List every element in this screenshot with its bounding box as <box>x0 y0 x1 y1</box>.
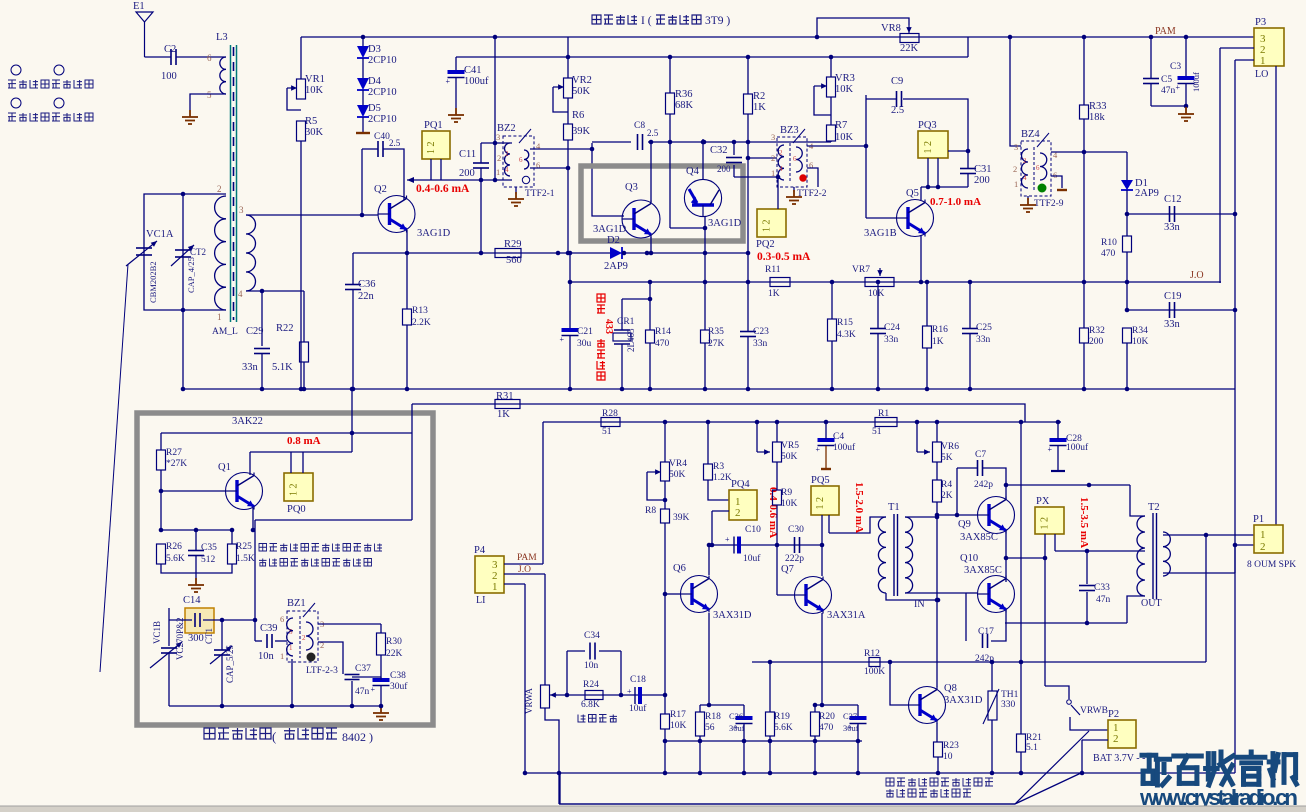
svg-text:1K: 1K <box>497 409 510 420</box>
wire <box>936 422 938 442</box>
junction <box>565 693 570 698</box>
wire Q9 emitter / Q10 collector <box>1005 530 1007 582</box>
junction <box>360 213 365 218</box>
wire C8 right to VR3 column <box>648 141 831 143</box>
capacitor C31 <box>960 169 976 174</box>
wire <box>566 651 568 695</box>
wire PQ4 pin1 <box>708 480 729 500</box>
svg-text:C2: C2 <box>164 44 176 55</box>
variable capacitor VC1B <box>161 648 177 653</box>
wire VR1 wiper loop <box>287 88 301 110</box>
wire volume feed <box>544 574 546 685</box>
wire <box>948 150 968 152</box>
resistor R3 <box>704 464 713 480</box>
wire <box>406 325 408 389</box>
svg-text:C40: C40 <box>374 132 390 142</box>
svg-text:100uf: 100uf <box>1066 442 1089 453</box>
wire <box>831 341 833 389</box>
junction <box>253 618 258 623</box>
junction <box>1043 556 1048 561</box>
wire <box>704 343 706 389</box>
wire VR6 wiper feed <box>916 422 918 452</box>
wire battery minus rail <box>525 772 1235 774</box>
wire PQ3 pin2 <box>937 158 939 187</box>
watermark CJK kuang shi shou yin ji <box>1142 752 1296 785</box>
capacitor C35 <box>188 551 204 556</box>
svg-text:22K: 22K <box>386 649 403 659</box>
svg-text:R29: R29 <box>504 239 522 250</box>
svg-text:2: 2 <box>217 184 222 194</box>
svg-text:R4: R4 <box>941 480 952 490</box>
junction <box>668 55 673 60</box>
wire B- vertical <box>1234 60 1236 573</box>
wire T2 secondary top to P1 <box>1163 534 1254 536</box>
wire R33 feed <box>1083 37 1085 105</box>
arrow VR3 wiper <box>814 83 827 88</box>
junction <box>181 387 186 392</box>
wire <box>567 98 569 124</box>
junction <box>830 280 835 285</box>
wire Q2 emitter <box>406 230 408 253</box>
junction <box>220 704 225 709</box>
junction <box>645 251 650 256</box>
wire C33 <box>1086 551 1088 584</box>
junction <box>1082 387 1087 392</box>
svg-text:5.1K: 5.1K <box>272 362 293 373</box>
wire speaker return <box>1205 535 1207 662</box>
wire <box>926 282 928 326</box>
resistor R20 <box>811 712 820 736</box>
svg-text:8 OUM SPK: 8 OUM SPK <box>1247 560 1296 570</box>
svg-text:C26: C26 <box>729 711 743 721</box>
svg-text:10K: 10K <box>1132 337 1149 347</box>
junction <box>824 420 829 425</box>
svg-text:2: 2 <box>1113 733 1119 745</box>
resistor R4 <box>933 480 942 502</box>
svg-text:R24: R24 <box>583 680 599 690</box>
svg-text:OUT: OUT <box>1141 598 1162 609</box>
wire <box>776 462 778 490</box>
junction <box>568 280 573 285</box>
capacitor C30 <box>795 537 800 553</box>
svg-text:+: + <box>446 77 451 86</box>
junction <box>566 251 571 256</box>
junction <box>768 739 773 744</box>
gray box local oscillator <box>137 413 433 725</box>
svg-text:C36: C36 <box>358 279 376 290</box>
capacitor C14 <box>195 613 200 627</box>
junction <box>479 178 484 183</box>
svg-text:C37: C37 <box>355 664 371 674</box>
wire <box>649 282 651 330</box>
junction <box>775 543 780 548</box>
wire Q8 base <box>890 662 909 705</box>
wire C2 to L3 <box>176 56 226 58</box>
svg-text:51: 51 <box>872 427 882 437</box>
wire BZ1 pin2 to C37 <box>318 642 343 674</box>
resistor R24 <box>585 691 603 700</box>
wire osc supply feed <box>351 389 353 452</box>
junction <box>856 739 861 744</box>
junction <box>1149 35 1154 40</box>
coil BZ2 primary <box>505 143 511 176</box>
connector P3 <box>1254 28 1284 67</box>
svg-text:18k: 18k <box>1089 112 1106 123</box>
transformer T1 primary <box>878 517 886 593</box>
capacitor C34 <box>590 643 595 660</box>
wire Q3 base <box>592 143 624 216</box>
wire PQ5 pin2 out <box>828 515 830 533</box>
wire PX pin1 down <box>1044 534 1046 686</box>
junction <box>299 387 304 392</box>
junction <box>568 251 573 256</box>
svg-text:TTF2-2: TTF2-2 <box>797 189 827 199</box>
junction <box>1085 549 1090 554</box>
mounting hole 1 <box>11 65 21 75</box>
junction <box>815 35 820 40</box>
junction <box>663 420 668 425</box>
svg-text:0.8 mA: 0.8 mA <box>287 435 321 447</box>
junction <box>746 55 751 60</box>
trimmer CT1 <box>214 650 230 655</box>
wire C17 left <box>965 593 967 641</box>
svg-text:R25: R25 <box>236 542 252 552</box>
svg-text:39K: 39K <box>572 126 591 137</box>
svg-text:5K: 5K <box>941 453 953 463</box>
wire P3 pin1 <box>1235 59 1254 61</box>
junction <box>919 280 924 285</box>
wire L3 pin4 bus <box>246 290 304 292</box>
svg-text:1 2: 1 2 <box>762 220 773 233</box>
svg-text:C29: C29 <box>246 326 264 337</box>
wire <box>291 659 293 706</box>
wire R2 column down <box>747 158 749 283</box>
svg-text:68K: 68K <box>675 100 694 111</box>
resistor R35 <box>701 330 710 343</box>
IF transformer BZ2 can <box>503 136 534 187</box>
resistor R13 <box>403 309 412 325</box>
wire <box>1057 422 1059 439</box>
capacitor C8 <box>638 134 643 150</box>
svg-text:10n: 10n <box>584 661 599 671</box>
wire feedback column <box>254 520 256 641</box>
svg-text:T2: T2 <box>1148 502 1160 513</box>
svg-text:Q2: Q2 <box>374 184 387 195</box>
svg-text:5.6K: 5.6K <box>166 554 185 564</box>
gray box compound RF stage <box>581 166 743 241</box>
junction <box>1004 483 1009 488</box>
ground bar C28 <box>1051 470 1065 472</box>
svg-text:222p: 222p <box>785 554 804 564</box>
wire tuning to rail <box>182 310 184 389</box>
wire <box>231 530 233 544</box>
bottom bar <box>0 806 1306 812</box>
wire BZ3 ground stem <box>793 187 795 192</box>
svg-text:200: 200 <box>1089 337 1104 347</box>
wire <box>195 530 197 550</box>
wire <box>221 620 223 650</box>
svg-text:4.3K: 4.3K <box>837 330 856 340</box>
wire VR4 loop <box>647 472 665 500</box>
junction <box>935 420 940 425</box>
wire Q6 emitter <box>708 613 710 705</box>
resistor R29 <box>495 249 521 258</box>
svg-text:C35: C35 <box>201 543 217 553</box>
resistor R5 <box>297 121 306 141</box>
svg-text:3AK22: 3AK22 <box>232 416 263 427</box>
wire <box>877 334 879 389</box>
wire <box>169 619 192 621</box>
svg-text:5: 5 <box>289 628 293 636</box>
switch VRWB contact <box>1067 700 1072 705</box>
svg-text:R16: R16 <box>932 325 948 335</box>
svg-text:100uf: 100uf <box>833 442 856 453</box>
wire <box>700 704 744 706</box>
wire <box>769 662 771 712</box>
connector P1 <box>1254 525 1283 553</box>
svg-text:200: 200 <box>717 164 731 174</box>
wire <box>1006 557 1045 559</box>
capacitor C29 <box>254 349 270 354</box>
text osc note line1 <box>259 544 382 552</box>
capacitor C5 <box>1143 79 1159 84</box>
svg-text:PAM: PAM <box>1155 26 1176 37</box>
junction <box>493 178 498 183</box>
svg-text:VR2: VR2 <box>572 75 592 86</box>
junction <box>663 739 668 744</box>
wire <box>936 462 938 480</box>
connector P2 <box>1108 720 1136 748</box>
svg-text:0.7-1.0 mA: 0.7-1.0 mA <box>930 196 981 208</box>
junction <box>379 704 384 709</box>
wire R21 supply column <box>1020 422 1022 734</box>
wire TH1 top <box>991 662 993 691</box>
junction <box>556 251 561 256</box>
svg-text:30uf: 30uf <box>729 723 745 733</box>
wire <box>776 422 778 442</box>
wire R33-R32 column <box>1083 119 1085 328</box>
svg-text:VR7: VR7 <box>852 265 870 275</box>
ground bar BZ4 pin6 <box>1057 189 1067 191</box>
svg-text:4: 4 <box>1023 174 1027 182</box>
wire <box>769 736 771 773</box>
svg-text:R32: R32 <box>1089 326 1105 336</box>
wire <box>1185 84 1187 106</box>
svg-text:T1: T1 <box>888 502 900 513</box>
wire <box>303 362 305 389</box>
svg-text:LI: LI <box>476 595 485 606</box>
capacitor C23 <box>740 332 756 337</box>
capacitor C39 <box>267 634 272 648</box>
svg-text:3AG1D: 3AG1D <box>593 224 627 235</box>
capacitor C14 highlight box <box>185 608 214 633</box>
svg-text:R17: R17 <box>670 710 686 720</box>
svg-text:R7: R7 <box>835 120 847 131</box>
capacitor C38 30uf <box>371 680 390 694</box>
svg-text:39K: 39K <box>673 513 690 523</box>
junction <box>701 140 706 145</box>
wire <box>669 114 671 142</box>
potentiometer VR4 <box>661 462 670 481</box>
junction <box>1008 35 1013 40</box>
svg-text:27K: 27K <box>708 339 725 349</box>
junction <box>966 149 971 154</box>
junction <box>706 420 711 425</box>
wire <box>743 724 745 773</box>
svg-text:R19: R19 <box>774 712 790 722</box>
transistor Q4 <box>684 179 721 216</box>
junction <box>926 185 931 190</box>
svg-text:1 2: 1 2 <box>289 484 300 497</box>
svg-text:R31: R31 <box>496 391 514 402</box>
wire <box>776 505 778 595</box>
capacitor C26 30uf <box>734 718 753 732</box>
svg-text:L3: L3 <box>216 32 228 43</box>
svg-text:33n: 33n <box>976 335 991 345</box>
wire C32 bottom <box>733 165 735 177</box>
junction <box>1125 387 1130 392</box>
junction <box>1184 104 1189 109</box>
wire <box>351 674 353 675</box>
wire PQ0 pin2 <box>302 452 304 473</box>
svg-text:J.O: J.O <box>1190 270 1204 281</box>
junction <box>181 308 186 313</box>
junction <box>668 140 673 145</box>
wire PAM feed <box>542 422 544 564</box>
junction <box>732 140 737 145</box>
resistor R10 <box>1123 236 1132 252</box>
thermistor TH1 <box>983 689 999 724</box>
wire <box>1126 152 1128 180</box>
wire <box>937 757 939 773</box>
wire <box>921 186 968 188</box>
svg-text:2: 2 <box>1260 541 1266 553</box>
junction <box>1125 212 1130 217</box>
connector PQ2 <box>757 209 786 237</box>
ground BZ2 <box>508 192 524 206</box>
svg-text:100K: 100K <box>864 667 885 677</box>
junction <box>159 489 164 494</box>
junction <box>1019 660 1024 665</box>
wire VR8 wiper loop <box>817 18 909 37</box>
svg-text:5.6K: 5.6K <box>774 723 793 733</box>
svg-text:R35: R35 <box>708 327 724 337</box>
wire <box>707 422 709 464</box>
svg-text:6: 6 <box>280 614 284 624</box>
wire <box>481 142 512 144</box>
wire <box>969 282 971 328</box>
svg-text:R33: R33 <box>1089 101 1107 112</box>
svg-text:3: 3 <box>239 205 244 215</box>
svg-text:R3: R3 <box>713 462 724 472</box>
svg-text:Q1: Q1 <box>218 462 231 473</box>
wire tone network <box>556 694 665 696</box>
junction <box>990 660 995 665</box>
svg-text:Q4: Q4 <box>686 166 700 177</box>
wire <box>380 686 382 706</box>
wire antenna to C2 <box>145 56 172 58</box>
resistor R26 <box>157 544 166 564</box>
svg-text:R14: R14 <box>655 327 671 337</box>
svg-text:0.4-0.6 mA: 0.4-0.6 mA <box>416 183 470 195</box>
svg-text:22n: 22n <box>358 291 375 302</box>
junction <box>351 387 356 392</box>
wire Q10 base <box>966 592 977 594</box>
svg-text:5: 5 <box>207 90 212 100</box>
wire C9 right <box>903 99 968 151</box>
junction <box>590 147 595 152</box>
svg-text:6.8K: 6.8K <box>581 700 600 710</box>
svg-text:Q5: Q5 <box>906 188 919 199</box>
junction <box>405 251 410 256</box>
BZ4 green dot <box>1038 184 1047 193</box>
wire Q6 collector <box>708 545 710 575</box>
wire VR5 wiper feed <box>756 422 758 452</box>
svg-text:D3: D3 <box>368 44 381 55</box>
wire <box>969 334 971 389</box>
junction <box>290 704 295 709</box>
svg-text:Q10: Q10 <box>960 553 978 564</box>
capacitor C27 30uf <box>848 718 867 732</box>
potentiometer VR2 <box>564 78 573 98</box>
wire C7 left <box>956 468 958 515</box>
wire R31 supply rail <box>412 404 1025 422</box>
svg-text:5.1: 5.1 <box>1026 743 1038 753</box>
svg-text:R1: R1 <box>878 409 889 419</box>
junction <box>776 175 781 180</box>
ground BZ3 <box>786 190 802 204</box>
svg-text:C8: C8 <box>634 121 645 131</box>
svg-text:2CP10: 2CP10 <box>368 55 397 66</box>
capacitor C28 100uf <box>1048 440 1067 454</box>
wire T2 primary top <box>1130 485 1145 516</box>
svg-text:2.5: 2.5 <box>891 105 904 116</box>
wire L3 pin5 to ground <box>190 94 226 110</box>
coil L3 core <box>231 45 237 322</box>
svg-text:VR6: VR6 <box>941 442 959 452</box>
wire T2 secondary bottom <box>1163 572 1235 574</box>
svg-text:C7: C7 <box>975 450 986 460</box>
wire <box>830 141 832 142</box>
junction <box>703 387 708 392</box>
svg-text:C33: C33 <box>1094 583 1110 593</box>
wire <box>351 681 353 706</box>
wire BZ1 pin3 to R30 <box>318 623 381 625</box>
svg-text:C19: C19 <box>1164 291 1182 302</box>
transistor Q1 <box>226 473 263 510</box>
arrowhead at wire end <box>407 177 414 183</box>
wire <box>1150 84 1152 106</box>
svg-text:PQ4: PQ4 <box>731 479 750 490</box>
wire AGC return bus <box>570 281 1221 283</box>
wire R36 feed <box>669 57 671 93</box>
svg-text:J.O: J.O <box>518 565 531 575</box>
wire CR1 feed <box>621 299 623 330</box>
svg-text:R10: R10 <box>1101 238 1117 248</box>
svg-text:1 2: 1 2 <box>923 141 934 154</box>
svg-text:470: 470 <box>819 723 834 733</box>
wire <box>255 640 262 642</box>
svg-text:BZ3: BZ3 <box>780 125 799 136</box>
wire PQ1 pin2 <box>440 159 442 180</box>
wire TH1 bottom <box>991 720 993 773</box>
transistor Q3 <box>622 200 660 238</box>
svg-text:10K: 10K <box>781 499 798 509</box>
wire C17 right <box>991 623 1006 641</box>
svg-text:33n: 33n <box>242 362 259 373</box>
capacitor C25 <box>962 329 978 334</box>
wire bias column <box>936 502 938 687</box>
